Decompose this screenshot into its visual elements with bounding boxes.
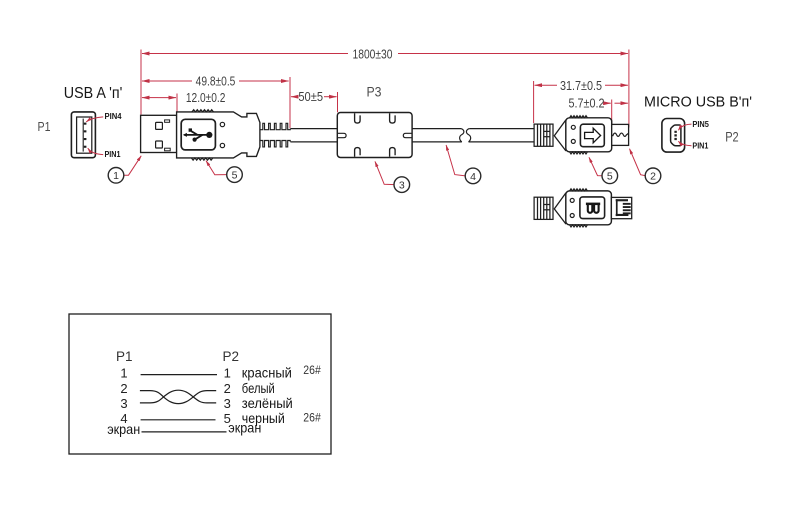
svg-text:1800±30: 1800±30 xyxy=(353,47,393,62)
connector P1: USB A front view outer shell xyxy=(71,112,95,158)
shell slot lower xyxy=(165,148,171,151)
connector P1: pin contacts xyxy=(84,123,87,148)
letter B rotated xyxy=(586,203,600,213)
dimension 1800±30 xyxy=(142,53,628,55)
svg-text:зелёный: зелёный xyxy=(242,396,293,411)
callout leader 5 (micro) xyxy=(589,157,602,175)
callout balloon 2 xyxy=(645,168,661,184)
svg-text:5: 5 xyxy=(607,171,613,183)
wire row 1 xyxy=(141,374,217,376)
wire: cable segment break to micro USB xyxy=(469,129,535,142)
wire: cable segment ferrite to break xyxy=(412,129,462,142)
connector P1: contact blade xyxy=(82,119,84,152)
strain relief ribs USB A top xyxy=(260,123,290,129)
ferrite latch left xyxy=(337,133,346,137)
bottom view serrations bottom xyxy=(570,225,588,227)
svg-text:MICRO USB B'п': MICRO USB B'п' xyxy=(644,94,752,110)
extension line (x=533.6) xyxy=(533,81,535,123)
cable break squiggle right xyxy=(466,129,470,142)
svg-text:12.0±0.2: 12.0±0.2 xyxy=(186,90,226,105)
svg-text:49.8±0.5: 49.8±0.5 xyxy=(196,73,236,88)
callout balloon 4 xyxy=(465,168,481,184)
USB trident logo xyxy=(183,128,213,141)
svg-text:P2: P2 xyxy=(223,349,240,364)
micro USB bottom view: strain relief xyxy=(534,197,553,219)
callout balloon 5 (micro) xyxy=(602,168,618,184)
callout leader 5 (USB A) xyxy=(206,161,227,175)
svg-text:5.7±0.2: 5.7±0.2 xyxy=(569,95,605,110)
micro USB side view: molded body xyxy=(566,118,612,152)
svg-text:P1: P1 xyxy=(38,120,51,134)
svg-text:экран: экран xyxy=(228,420,261,435)
svg-text:экран: экран xyxy=(107,422,140,437)
micro USB bottom view: metal tip xyxy=(611,197,631,218)
USB logo box xyxy=(181,119,215,150)
extension line (x=337.5) xyxy=(337,92,339,112)
svg-text:1: 1 xyxy=(113,170,119,182)
svg-text:50±5: 50±5 xyxy=(298,89,323,104)
svg-text:P3: P3 xyxy=(367,84,382,100)
wire shield xyxy=(142,431,227,433)
connector P2: micro USB front view opening xyxy=(671,125,681,146)
leader to PIN1 (right) xyxy=(678,141,691,145)
ferrite clip bottom-right xyxy=(390,148,396,157)
bottom view logo box (letter B) xyxy=(580,197,605,219)
svg-text:2: 2 xyxy=(224,381,231,396)
bottom view circle upper xyxy=(570,198,574,202)
micro USB bottom view: molded body xyxy=(566,191,612,225)
dimension 5.7±0.2 xyxy=(606,102,628,104)
svg-text:красный: красный xyxy=(242,365,292,380)
bottom view circle lower xyxy=(570,214,574,218)
body rivet circle lower xyxy=(220,143,224,147)
twisted pair wire A xyxy=(140,391,216,404)
svg-text:3: 3 xyxy=(399,180,405,192)
shell hole upper xyxy=(156,122,163,129)
svg-text:PIN4: PIN4 xyxy=(105,112,123,121)
strain relief ribs USB A bottom xyxy=(260,141,290,147)
svg-text:PIN1: PIN1 xyxy=(105,150,121,159)
cable break squiggle left xyxy=(460,129,464,142)
dimension 49.8±0.5 xyxy=(142,80,289,82)
ferrite latch right xyxy=(403,133,412,137)
arrow icon xyxy=(585,128,601,143)
callout balloon 1 xyxy=(108,168,124,184)
svg-text:5: 5 xyxy=(232,170,238,182)
svg-text:3: 3 xyxy=(120,396,127,411)
micro body circle upper xyxy=(571,125,575,129)
svg-text:P1: P1 xyxy=(116,349,133,364)
micro body serrations top xyxy=(570,116,588,118)
ferrite bead P3 body xyxy=(337,113,412,158)
micro logo box (arrow) xyxy=(580,124,604,147)
extension line (x=290) xyxy=(289,77,291,128)
svg-text:3: 3 xyxy=(224,396,231,411)
ferrite clip bottom-left xyxy=(355,148,361,157)
leader to PIN1 (left) xyxy=(88,148,103,154)
ferrite clip top-left xyxy=(355,113,361,123)
body rivet circle upper xyxy=(220,122,224,126)
svg-text:PIN1: PIN1 xyxy=(692,142,708,151)
callout leader 4 xyxy=(446,145,465,176)
callout leader 2 xyxy=(630,149,646,176)
extension line left (x=141) xyxy=(140,50,142,115)
connector P2: micro USB front view outer xyxy=(662,119,685,153)
shell hole lower xyxy=(156,141,163,148)
shell slot upper xyxy=(165,120,170,122)
extension line right (x=628.9) xyxy=(628,50,630,128)
dimension 31.7±0.5 xyxy=(535,84,628,86)
micro body serrations bottom xyxy=(570,152,588,154)
callout balloon 5 (USB A) xyxy=(227,167,243,183)
svg-text:белый: белый xyxy=(242,381,275,396)
wire row 4 xyxy=(141,419,216,421)
callout leader 3 xyxy=(375,161,394,184)
svg-text:2: 2 xyxy=(120,381,127,396)
svg-text:1: 1 xyxy=(224,365,231,380)
svg-text:2: 2 xyxy=(650,171,656,183)
svg-text:USB A 'п': USB A 'п' xyxy=(64,85,123,102)
ferrite clip top-right xyxy=(390,113,396,123)
dimension 50±5 xyxy=(291,96,337,98)
connector USB A side view: metal shell xyxy=(141,115,177,152)
wire: cable segment USB A to ferrite xyxy=(290,129,337,142)
svg-text:1: 1 xyxy=(120,365,127,380)
twisted pair wire B xyxy=(140,390,216,403)
tip latch notch xyxy=(612,133,629,136)
bottom view serrations top xyxy=(570,189,588,191)
leader to PIN4 xyxy=(86,117,103,122)
connector USB A side view: molded body xyxy=(177,112,260,158)
grip serrations top xyxy=(192,110,214,112)
svg-text:26#: 26# xyxy=(303,365,321,377)
callout balloon 3 xyxy=(394,177,410,193)
wiring table box xyxy=(69,314,331,454)
micro USB side view: metal tip xyxy=(612,124,629,145)
micro USB side view: boot cone xyxy=(554,120,566,151)
micro USB bottom view: boot cone xyxy=(554,193,566,224)
leader to PIN5 xyxy=(678,124,691,130)
micro body circle lower xyxy=(571,139,575,143)
extension line (x=177) xyxy=(176,94,178,112)
connector P2: contact bar xyxy=(674,131,676,142)
extension line (x=611.7) xyxy=(611,100,613,125)
tip contact comb xyxy=(616,199,631,216)
svg-text:P2: P2 xyxy=(725,128,739,144)
svg-text:PIN5: PIN5 xyxy=(692,120,709,129)
micro USB side view: strain relief xyxy=(534,124,553,146)
grip serrations bottom xyxy=(191,158,213,160)
callout leader 1 xyxy=(123,156,141,175)
dimension 12.0±0.2 xyxy=(142,97,176,99)
svg-text:4: 4 xyxy=(470,171,476,183)
svg-text:26#: 26# xyxy=(303,412,321,424)
connector P1: USB A front view inner opening xyxy=(77,117,92,153)
svg-text:31.7±0.5: 31.7±0.5 xyxy=(560,78,602,93)
